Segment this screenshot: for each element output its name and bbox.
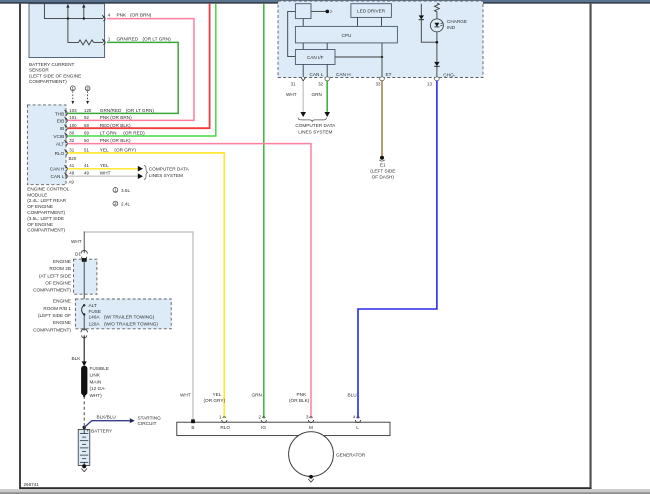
svg-text:(OR BRN): (OR BRN) bbox=[110, 115, 132, 120]
pin 1 (sensor) connector bbox=[102, 39, 105, 45]
svg-text:(AT LEFT SIDE: (AT LEFT SIDE bbox=[39, 273, 71, 278]
engine room relay block R/B 1 box bbox=[75, 299, 171, 329]
svg-text:LT GRN: LT GRN bbox=[100, 131, 117, 136]
svg-text:(LEFT SIDE: (LEFT SIDE bbox=[370, 169, 395, 174]
svg-text:32: 32 bbox=[69, 138, 74, 143]
wire (junction down to D1) bbox=[83, 232, 85, 254]
pin CAN L row: pins 49/49 bbox=[50, 171, 110, 180]
svg-text:(OR LT GRN): (OR LT GRN) bbox=[126, 108, 155, 113]
wire (resistor to pin 1) bbox=[94, 41, 104, 43]
svg-text:RLO: RLO bbox=[55, 151, 65, 156]
pin IB row: pins 100/68 bbox=[60, 123, 131, 131]
connector below R/B 1 bbox=[81, 329, 87, 338]
svg-text:140A: 140A bbox=[89, 315, 101, 320]
svg-text:(W/ TRAILER TOWING): (W/ TRAILER TOWING) bbox=[104, 315, 155, 320]
svg-text:MODULE: MODULE bbox=[27, 192, 47, 197]
battery bbox=[78, 429, 90, 465]
svg-text:CHARGE: CHARGE bbox=[447, 19, 467, 24]
svg-text:(OR BLK): (OR BLK) bbox=[110, 123, 131, 128]
variant marker 1 (3.5L) above pin column 1 bbox=[70, 86, 75, 105]
variant marker 2 (2.4L) above pin column 2 bbox=[85, 86, 90, 105]
terminal pad B bbox=[191, 419, 195, 423]
svg-text:YEL: YEL bbox=[213, 392, 222, 397]
svg-text:VCIB: VCIB bbox=[53, 134, 64, 139]
svg-text:RLO: RLO bbox=[220, 425, 230, 430]
arrow GRN down bbox=[324, 112, 330, 117]
connector at ET pin 33 bbox=[380, 77, 385, 81]
pin RLO row: pins 31/51 bbox=[55, 148, 137, 156]
wire diode to CHG- terminal bbox=[436, 66, 438, 78]
engine room no.2 junction block 2B box bbox=[74, 259, 97, 294]
svg-text:CPU: CPU bbox=[341, 33, 352, 38]
wire YEL (OR GRY) ECM RLO to generator RLO bbox=[68, 153, 224, 419]
svg-text:BATTERY: BATTERY bbox=[91, 428, 113, 433]
svg-text:PNK: PNK bbox=[100, 138, 111, 143]
svg-text:OF ENGINE: OF ENGINE bbox=[27, 222, 53, 227]
svg-text:(OR LT GRN): (OR LT GRN) bbox=[143, 36, 172, 41]
pin THB row: label, connector, pins 103/120 bbox=[55, 108, 154, 116]
svg-text:49: 49 bbox=[84, 171, 89, 176]
svg-text:WHT): WHT) bbox=[90, 393, 103, 398]
svg-text:+: + bbox=[86, 429, 89, 434]
svg-text:1: 1 bbox=[108, 36, 111, 41]
svg-text:PNK: PNK bbox=[100, 115, 111, 120]
svg-text:BLK: BLK bbox=[72, 356, 82, 361]
svg-text:RED: RED bbox=[100, 123, 111, 128]
svg-text:80: 80 bbox=[69, 131, 74, 136]
svg-text:69: 69 bbox=[84, 131, 89, 136]
svg-text:33: 33 bbox=[376, 81, 381, 86]
generator connector box bbox=[177, 422, 390, 435]
svg-text:IG: IG bbox=[261, 425, 266, 430]
svg-text:92: 92 bbox=[84, 115, 89, 120]
svg-text:(OR GRY): (OR GRY) bbox=[204, 398, 226, 403]
wire parallel branch to junction bbox=[421, 20, 437, 43]
wire CPU to CAN I/F b bbox=[326, 43, 328, 50]
svg-text:BLU: BLU bbox=[348, 393, 358, 398]
CPU box bbox=[295, 26, 397, 43]
legend marker 1 = 3.5L bbox=[113, 187, 131, 192]
svg-text:CAN L: CAN L bbox=[310, 72, 324, 77]
LED driver box bbox=[351, 4, 392, 18]
svg-text:ENGINE CONTROL: ENGINE CONTROL bbox=[27, 186, 70, 191]
ground (battery) bbox=[82, 464, 86, 468]
svg-text:2: 2 bbox=[86, 86, 89, 91]
svg-text:2: 2 bbox=[114, 201, 117, 206]
fuse ALT bbox=[82, 304, 86, 316]
svg-text:LINK: LINK bbox=[90, 373, 101, 378]
svg-text:(LEFT SIDE OF ENGINE: (LEFT SIDE OF ENGINE bbox=[29, 73, 81, 78]
svg-text:(OR BLK): (OR BLK) bbox=[110, 138, 131, 143]
svg-text:BLK/BLU: BLK/BLU bbox=[97, 414, 117, 419]
svg-text:13: 13 bbox=[427, 81, 432, 86]
svg-text:CHG-: CHG- bbox=[443, 72, 455, 77]
wire BLK/BLU to starting circuit bbox=[84, 421, 130, 428]
svg-text:COMPARTMENT): COMPARTMENT) bbox=[27, 210, 65, 215]
svg-text:ALT: ALT bbox=[56, 142, 64, 147]
wire parallel diode branch bbox=[420, 4, 422, 16]
wire WHT ECM CAN L to data link bbox=[68, 175, 138, 177]
pin 4 (sensor) connector bbox=[102, 15, 105, 21]
svg-text:(2.4L: LEFT REAR: (2.4L: LEFT REAR bbox=[27, 198, 67, 203]
node (battery positive junction) bbox=[83, 426, 86, 429]
wire LED driver to CPU a bbox=[357, 17, 359, 26]
svg-text:EIB: EIB bbox=[57, 118, 65, 123]
wire (dashed) fusible link to battery node bbox=[83, 395, 85, 397]
svg-text:B: B bbox=[191, 425, 194, 430]
wire YEL ECM CAN H to data link bbox=[68, 168, 138, 170]
svg-text:32: 32 bbox=[318, 81, 323, 86]
svg-text:COMPUTER DATA: COMPUTER DATA bbox=[149, 166, 190, 171]
wire GRN/RED (OR LT GRN) sensor pin 1 to ECM THB bbox=[68, 42, 178, 113]
terminal pad (2B entry) bbox=[82, 258, 87, 262]
svg-text:CIRCUIT: CIRCUIT bbox=[138, 421, 157, 426]
wire BRN pin 33 to ground E1 bbox=[381, 81, 383, 156]
svg-text:49: 49 bbox=[69, 171, 74, 176]
svg-text:(3.5L: LEFT SIDE: (3.5L: LEFT SIDE bbox=[27, 216, 64, 221]
svg-text:COMPARTMENT): COMPARTMENT) bbox=[27, 228, 65, 233]
svg-text:CAN H: CAN H bbox=[50, 167, 65, 172]
svg-text:LINES SYSTEM: LINES SYSTEM bbox=[298, 130, 332, 135]
pin CAN H row: pins 41/41 bbox=[50, 163, 109, 172]
node (generator ground) bbox=[309, 475, 313, 479]
wire LT GRN (OR RED) from top to ECM VCIB bbox=[68, 4, 216, 136]
node (sensor junction b) bbox=[83, 17, 85, 19]
wire (sensor internal supply) bbox=[44, 4, 103, 19]
wire BLK to fusible link bbox=[83, 335, 85, 361]
engine control module ECM box bbox=[27, 105, 66, 185]
svg-text:E1: E1 bbox=[380, 162, 386, 167]
wire CAN I/F to CAN L terminal bbox=[302, 65, 304, 78]
svg-text:GRN/RED: GRN/RED bbox=[117, 36, 139, 41]
svg-text:B20: B20 bbox=[69, 156, 77, 161]
svg-text:COMPARTMENT): COMPARTMENT) bbox=[33, 288, 71, 293]
svg-text:ENGINE: ENGINE bbox=[53, 320, 71, 325]
svg-text:D1: D1 bbox=[75, 252, 81, 257]
svg-text:FUSIBLE: FUSIBLE bbox=[90, 366, 110, 371]
wire meter box to CPU bbox=[302, 19, 304, 27]
svg-text:THB: THB bbox=[55, 111, 64, 116]
arrow to starting circuit bbox=[130, 418, 135, 423]
wire CPU to CAN I/F a bbox=[302, 43, 304, 50]
svg-text:GRN/RED: GRN/RED bbox=[100, 108, 122, 113]
wire CPU to ET terminal bbox=[381, 43, 383, 78]
svg-text:(OR RED): (OR RED) bbox=[123, 131, 145, 136]
svg-text:(OR BLK): (OR BLK) bbox=[289, 398, 310, 403]
svg-text:50: 50 bbox=[84, 138, 89, 143]
svg-text:OF ENGINE: OF ENGINE bbox=[45, 281, 71, 286]
pin ALT row: pins 32/50 bbox=[56, 138, 131, 146]
combination meter assembly box bbox=[278, 1, 483, 78]
svg-text:(W/O TRAILER TOWING): (W/O TRAILER TOWING) bbox=[104, 321, 158, 326]
wire LED driver to CPU b bbox=[381, 17, 383, 26]
svg-text:120A: 120A bbox=[89, 321, 101, 326]
diode (parallel) bbox=[419, 15, 424, 19]
svg-text:CAN I/F: CAN I/F bbox=[307, 55, 324, 60]
svg-text:IND: IND bbox=[447, 25, 456, 30]
wire BLU pin 13 to generator L bbox=[358, 81, 437, 419]
svg-text:31: 31 bbox=[69, 148, 74, 153]
node (ET junction) bbox=[381, 56, 383, 58]
connector at CHG- pin 13 bbox=[435, 77, 440, 81]
wire GRN from top to generator IG bbox=[263, 4, 265, 419]
svg-text:IB: IB bbox=[60, 126, 64, 131]
arrow up (sensor branch 1) bbox=[66, 4, 69, 8]
svg-text:GRN: GRN bbox=[252, 393, 262, 398]
brace under arrows bbox=[298, 118, 327, 122]
svg-text:2.4L: 2.4L bbox=[121, 202, 131, 207]
wire (sensor internal branch 1) bbox=[67, 8, 69, 19]
arrow CAN H off-page bbox=[138, 166, 143, 172]
svg-text:COMPARTMENT): COMPARTMENT) bbox=[33, 327, 71, 332]
wire WHT generator B to engine room junction bbox=[85, 232, 193, 420]
svg-text:A9: A9 bbox=[69, 180, 75, 185]
svg-text:PNK: PNK bbox=[117, 13, 128, 18]
svg-text:41: 41 bbox=[69, 163, 74, 168]
wire through 2B block bbox=[83, 258, 85, 299]
svg-text:51: 51 bbox=[84, 148, 89, 153]
svg-text:ROOM R/B 1: ROOM R/B 1 bbox=[43, 306, 71, 311]
wire CAN I/F to CAN H terminal bbox=[326, 65, 328, 79]
svg-text:CAN H: CAN H bbox=[336, 72, 351, 77]
svg-text:SENSOR: SENSOR bbox=[29, 68, 49, 73]
svg-text:(LEFT SIDE OF: (LEFT SIDE OF bbox=[38, 313, 71, 318]
wire WHT pin 31 to data link bbox=[302, 81, 304, 112]
svg-text:103: 103 bbox=[69, 108, 77, 113]
arrow node (meter internal) bbox=[326, 10, 330, 14]
wire (sensor internal branch 2) bbox=[83, 8, 85, 19]
wire PNK (OR BLK) ECM ALT to generator M bbox=[68, 144, 311, 419]
svg-text:BATTERY CURRENT: BATTERY CURRENT bbox=[29, 62, 74, 67]
wire CAN I/F to ET line bbox=[335, 56, 382, 58]
wire meter box to arrow node bbox=[311, 10, 327, 12]
svg-text:COMPUTER DATA: COMPUTER DATA bbox=[295, 123, 336, 128]
arrow down into fusible link bbox=[82, 361, 87, 366]
svg-text:M: M bbox=[309, 425, 313, 430]
svg-text:MAIN: MAIN bbox=[90, 379, 102, 384]
svg-text:266741: 266741 bbox=[24, 482, 40, 487]
arrow CAN L at meter edge bbox=[301, 77, 306, 81]
LED charge indicator lamp bbox=[430, 19, 443, 32]
svg-text:100: 100 bbox=[69, 123, 77, 128]
wire fuse to R/B1 exit bbox=[83, 314, 85, 330]
svg-text:41: 41 bbox=[84, 163, 89, 168]
svg-text:YEL: YEL bbox=[100, 148, 109, 153]
wire PNK (OR BRN) sensor pin 4 to ECM EIB bbox=[68, 19, 194, 121]
pin EIB row: pins 101/92 bbox=[57, 115, 132, 123]
svg-text:120: 120 bbox=[84, 108, 92, 113]
svg-text:OF ENGINE: OF ENGINE bbox=[27, 204, 53, 209]
svg-text:68: 68 bbox=[84, 123, 89, 128]
node (sensor junction a) bbox=[67, 17, 69, 19]
svg-text:31: 31 bbox=[291, 81, 296, 86]
wire RED (OR BLK) from top to ECM IB bbox=[68, 4, 210, 129]
fusible link MAIN bbox=[81, 366, 87, 396]
generator body bbox=[289, 432, 334, 477]
svg-text:L: L bbox=[356, 425, 359, 430]
connector at CAN H pin 32 bbox=[325, 77, 330, 81]
svg-text:(12 GA-: (12 GA- bbox=[90, 386, 107, 391]
svg-text:(OR BRN): (OR BRN) bbox=[130, 13, 152, 18]
svg-text:ET: ET bbox=[386, 72, 392, 77]
svg-text:WHT: WHT bbox=[180, 393, 191, 398]
svg-text:CAN L: CAN L bbox=[50, 174, 64, 179]
meter input box U1 bbox=[295, 4, 311, 19]
svg-text:3.5L: 3.5L bbox=[121, 188, 131, 193]
svg-text:LED DRIVER: LED DRIVER bbox=[357, 8, 386, 13]
svg-text:ALT: ALT bbox=[89, 303, 97, 308]
svg-text:OF DASH): OF DASH) bbox=[372, 175, 395, 180]
svg-text:ENGINE: ENGINE bbox=[53, 299, 71, 304]
legend marker 2 = 2.4L bbox=[113, 201, 131, 206]
svg-text:GRN: GRN bbox=[312, 92, 322, 97]
battery current sensor bbox=[29, 4, 105, 58]
svg-text:LINES SYSTEM: LINES SYSTEM bbox=[149, 173, 183, 178]
diode (charge output) bbox=[434, 62, 439, 66]
arrow WHT down bbox=[300, 112, 306, 117]
svg-text:ENGINE: ENGINE bbox=[53, 259, 71, 264]
resistor (battery current sensor shunt) bbox=[79, 40, 94, 45]
node (charge branch junction) bbox=[436, 41, 439, 44]
resistor (charge indicator) bbox=[435, 3, 440, 19]
svg-text:ROOM 2B: ROOM 2B bbox=[49, 266, 71, 271]
svg-text:1: 1 bbox=[71, 86, 74, 91]
svg-text:YEL: YEL bbox=[100, 163, 109, 168]
svg-text:PNK: PNK bbox=[297, 392, 308, 397]
svg-text:WHT: WHT bbox=[71, 239, 82, 244]
svg-text:GENERATOR: GENERATOR bbox=[336, 452, 366, 457]
svg-text:WHT: WHT bbox=[100, 171, 111, 176]
arrow up (sensor branch 2) bbox=[82, 4, 85, 8]
svg-text:WHT: WHT bbox=[286, 92, 297, 97]
ground E1 bbox=[380, 156, 384, 160]
svg-text:1: 1 bbox=[114, 187, 117, 192]
arrow CAN L off-page bbox=[138, 173, 143, 179]
brace to computer data lines system bbox=[144, 165, 148, 179]
wire LED to diode bbox=[436, 32, 438, 62]
svg-text:STARTING: STARTING bbox=[138, 415, 162, 420]
svg-text:FUSE: FUSE bbox=[89, 309, 102, 314]
svg-text:(OR GRY): (OR GRY) bbox=[114, 148, 136, 153]
wire (sensor internal to resistor) bbox=[68, 19, 79, 43]
wire meter box left to CAN I/F bbox=[288, 11, 296, 56]
svg-text:COMPARTMENT): COMPARTMENT) bbox=[29, 79, 67, 84]
wire GRN pin 32 to data link bbox=[326, 81, 328, 112]
svg-text:4: 4 bbox=[108, 13, 111, 18]
pin VCIB row: pins 80/69 bbox=[53, 131, 145, 139]
ground (generator) bbox=[308, 479, 314, 482]
svg-text:101: 101 bbox=[69, 115, 77, 120]
CAN I/F box bbox=[295, 50, 335, 65]
